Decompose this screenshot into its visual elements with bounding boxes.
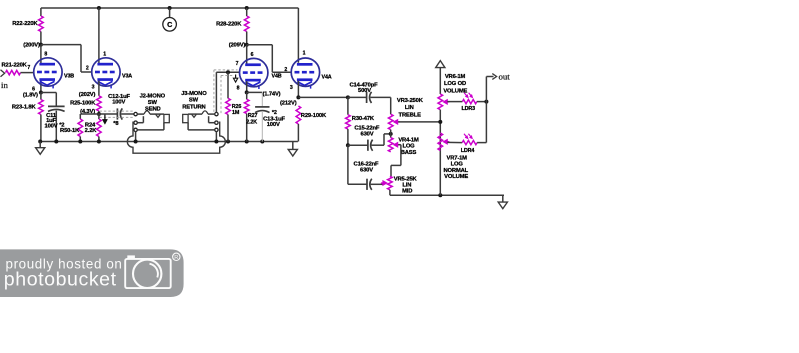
svg-text:R50-1K: R50-1K [60,128,80,134]
svg-text:3: 3 [92,84,95,90]
svg-text:100V: 100V [112,99,125,105]
svg-text:J2-MONO: J2-MONO [140,94,166,100]
svg-text:1: 1 [103,52,106,58]
svg-text:7: 7 [27,65,30,71]
svg-text:500V: 500V [358,88,371,94]
svg-text:R30-47K: R30-47K [352,116,375,122]
svg-text:*2: *2 [272,110,277,116]
svg-text:VR4-1M: VR4-1M [398,138,419,144]
svg-text:630V: 630V [361,132,374,138]
svg-text:LOG: LOG [451,162,464,168]
svg-text:photobucket: photobucket [4,269,117,291]
svg-text:LDR4: LDR4 [461,148,475,154]
svg-text:8: 8 [44,52,47,58]
svg-text:R23-1.8K: R23-1.8K [12,105,37,111]
svg-text:3: 3 [290,85,293,91]
svg-text:VOLUME: VOLUME [444,174,468,180]
svg-text:R: R [174,255,178,261]
svg-text:V4A: V4A [322,74,332,80]
svg-text:2: 2 [86,65,89,71]
svg-text:out: out [499,72,511,82]
svg-text:BASS: BASS [401,150,417,156]
svg-text:R21-220K: R21-220K [2,62,28,68]
svg-text:R29-100K: R29-100K [301,113,327,119]
svg-text:VR5-25K: VR5-25K [394,176,418,182]
svg-text:*8: *8 [113,121,119,127]
svg-text:V3A: V3A [122,73,132,79]
svg-text:in: in [1,80,8,90]
svg-text:(1.74V): (1.74V) [263,91,281,97]
svg-text:(202V): (202V) [79,92,96,98]
svg-text:R25-100K: R25-100K [70,100,96,106]
svg-text:630V: 630V [360,168,373,174]
svg-text:6: 6 [251,52,254,58]
svg-text:2.2K: 2.2K [85,128,98,134]
svg-text:(212V): (212V) [280,100,297,106]
svg-text:C: C [167,20,172,29]
svg-text:LDR3: LDR3 [461,106,475,112]
svg-text:V3B: V3B [64,73,74,79]
svg-text:2: 2 [284,67,287,73]
svg-text:8: 8 [237,86,240,92]
svg-text:6: 6 [32,86,35,92]
svg-text:TREBLE: TREBLE [399,112,422,118]
svg-text:R27: R27 [248,113,258,119]
svg-text:NORMAL: NORMAL [444,168,469,174]
svg-text:R28-220K: R28-220K [216,22,242,28]
svg-text:C15-22nF: C15-22nF [354,126,380,132]
svg-text:(209V): (209V) [229,43,246,49]
svg-text:1: 1 [303,51,306,57]
svg-text:VR3-250K: VR3-250K [397,98,424,104]
svg-text:MID: MID [402,188,412,194]
svg-text:(1.8V): (1.8V) [23,92,38,98]
svg-text:LIN: LIN [405,105,414,111]
svg-text:R22-220K: R22-220K [12,21,38,27]
svg-text:J3-MONO: J3-MONO [181,91,207,97]
svg-text:100V: 100V [267,122,280,128]
svg-text:SW: SW [189,98,199,104]
svg-text:1M: 1M [232,110,240,116]
svg-text:VOLUME: VOLUME [443,89,467,95]
svg-text:V4B: V4B [272,74,282,80]
svg-text:(200V): (200V) [23,42,40,48]
svg-text:2.2K: 2.2K [246,119,257,125]
svg-text:SW: SW [148,100,158,106]
svg-text:LOG OD: LOG OD [444,81,466,87]
svg-text:LOG: LOG [402,144,415,150]
svg-text:7: 7 [236,61,239,67]
svg-text:100V: 100V [45,124,58,130]
svg-text:RETURN: RETURN [182,104,205,110]
svg-text:VR7-1M: VR7-1M [447,155,468,161]
svg-text:VR6-1M: VR6-1M [445,74,466,80]
